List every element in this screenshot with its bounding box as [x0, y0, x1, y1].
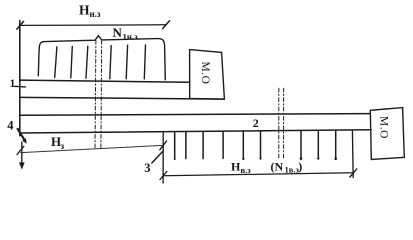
tick slash left of H z — [17, 146, 24, 154]
hatch tick — [144, 45, 145, 79]
label H n.z — [79, 2, 101, 19]
box M.O lower right — [370, 108, 404, 160]
hatch tick — [110, 46, 111, 79]
centre dash line right b — [283, 88, 285, 158]
svg-text:в.з: в.з — [241, 165, 252, 175]
beam 1 bottom edge — [20, 97, 225, 99]
svg-text:4: 4 — [7, 119, 14, 133]
tick slash right of top dimension — [163, 21, 170, 29]
centre dash line right a — [278, 88, 280, 159]
label (N 1v.z) — [271, 159, 303, 174]
bottom hatch tick — [300, 131, 302, 159]
beam 2 bottom edge — [20, 130, 371, 133]
arrowhead of leader 4 — [22, 138, 27, 144]
svg-text:з: з — [61, 141, 65, 151]
bottom hatch tick — [317, 130, 319, 158]
svg-text:2: 2 — [253, 116, 259, 130]
leader of label 4 (bold arrow) — [18, 129, 25, 140]
left frame vertical edge — [19, 21, 21, 136]
centre dash line left b — [100, 41, 103, 149]
dimension line H n.z (top) — [20, 24, 166, 27]
svg-text:1: 1 — [10, 78, 16, 90]
svg-text:(N: (N — [271, 159, 284, 173]
label N 1n.z — [113, 25, 139, 42]
svg-text:1в.з: 1в.з — [285, 164, 300, 174]
bottom hatch tick — [185, 132, 187, 159]
bottom hatch tick — [260, 131, 262, 158]
svg-text:н.з: н.з — [90, 9, 101, 19]
centre dash line left a — [94, 41, 97, 149]
label H v.z — [231, 160, 251, 175]
bottom hatch tick — [242, 131, 244, 159]
beam 1 top edge — [20, 80, 190, 82]
label H z — [51, 134, 65, 151]
extension line below beam at node 3 — [162, 132, 164, 184]
hatch tick — [126, 45, 127, 79]
leader of label 1 — [15, 85, 26, 88]
tick slash left of top dimension — [17, 21, 24, 29]
leader of label 3 — [152, 151, 163, 163]
beam 2 top edge — [20, 114, 371, 116]
svg-text:1н.з: 1н.з — [123, 32, 139, 42]
tick slash right of H z — [160, 141, 167, 150]
svg-text:): ) — [298, 159, 302, 173]
svg-text:N: N — [113, 25, 123, 40]
svg-text:Н: Н — [231, 160, 241, 174]
tick slash left of bottom dimension — [160, 172, 167, 180]
tick slash right of bottom dimension — [350, 169, 357, 177]
svg-text:М.О: М.О — [199, 62, 211, 85]
lower-left axis line with arrow — [21, 142, 23, 164]
dimension line H v.z (bottom) — [163, 173, 353, 176]
box M.O upper — [190, 50, 225, 100]
hatch tick — [71, 47, 73, 79]
bottom hatch tick — [335, 130, 337, 158]
hatch tick — [55, 47, 57, 78]
extension line right of bottom dimension — [351, 130, 354, 177]
hatch tick — [86, 46, 88, 78]
brace over top hatch zone — [38, 36, 165, 80]
svg-text:3: 3 — [144, 161, 150, 175]
bottom hatch tick — [202, 131, 204, 158]
arrowhead of lower-left axis — [19, 162, 25, 169]
svg-text:Н: Н — [79, 2, 90, 17]
bottom hatch tick — [174, 132, 176, 159]
dimension line H z (left lower) — [21, 145, 164, 152]
ink blobs at tick ends — [174, 157, 337, 160]
bottom hatch tick — [222, 131, 224, 158]
svg-text:М.О: М.О — [378, 116, 390, 139]
